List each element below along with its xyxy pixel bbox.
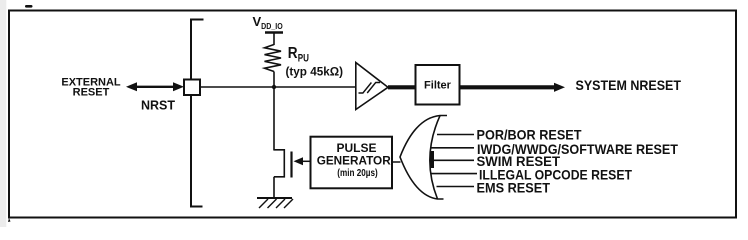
svg-text:SYSTEM NRESET: SYSTEM NRESET [576,77,682,93]
svg-text:R: R [288,45,298,62]
svg-text:EMS RESET: EMS RESET [477,179,551,195]
svg-text:RESET: RESET [73,87,110,99]
svg-text:GENERATOR: GENERATOR [317,153,391,167]
svg-text:NRST: NRST [141,99,175,113]
svg-text:(min 20µs): (min 20µs) [337,167,378,179]
svg-text:(typ 45kΩ): (typ 45kΩ) [286,65,344,79]
svg-text:PU: PU [298,52,309,64]
svg-text:Filter: Filter [424,80,452,92]
